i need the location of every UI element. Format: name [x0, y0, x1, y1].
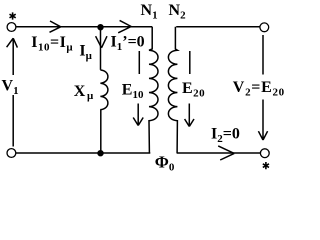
transformer primary winding N1 coil	[149, 27, 158, 153]
arrow E10 (down, between X-mu and N1)	[133, 51, 143, 126]
svg-text:I2=0: I2=0	[211, 125, 240, 145]
inductor X-mu coil bumps	[100, 70, 108, 110]
svg-text:V1: V1	[2, 78, 19, 98]
wire X-mu branch lower segment	[100, 109, 102, 153]
arrow E20 (down, right of N2)	[185, 51, 194, 127]
wire top-right horizontal (secondary output)	[176, 26, 259, 28]
polarity dot asterisk top-left	[10, 12, 16, 19]
arrow V1 (up, left side)	[7, 38, 18, 146]
terminal bottom-left	[7, 149, 16, 158]
svg-text:N2: N2	[169, 2, 187, 22]
svg-text:I1’=0: I1’=0	[111, 33, 145, 53]
svg-text:Φ0: Φ0	[155, 152, 175, 173]
wire bottom-left horizontal	[16, 152, 150, 154]
svg-text:V2=E20: V2=E20	[233, 79, 285, 99]
junction node top (X-mu tap)	[97, 24, 103, 30]
svg-text:E20: E20	[182, 80, 205, 100]
wire X-mu branch upper segment	[100, 28, 102, 70]
arrow I10 (right, on top-left wire)	[50, 21, 61, 32]
svg-text:Iμ: Iμ	[79, 42, 92, 62]
terminal top-right	[260, 23, 269, 32]
arrow V2 (down, right side)	[258, 35, 267, 140]
svg-text:I10=Iμ: I10=Iμ	[31, 34, 73, 54]
polarity dot asterisk bottom-right	[263, 162, 269, 169]
wire bottom-right horizontal	[177, 152, 261, 154]
arrow I1' (right, before primary coil)	[118, 20, 131, 32]
arrow I-mu (down, on X-mu branch)	[96, 36, 107, 48]
junction node bottom	[97, 150, 103, 156]
terminal top-left	[7, 23, 16, 32]
wire top-left horizontal (primary input)	[16, 26, 152, 28]
svg-text:N1: N1	[141, 2, 158, 22]
svg-text:Xμ: Xμ	[74, 83, 95, 102]
svg-text:E10: E10	[122, 82, 144, 102]
transformer secondary winding N2 coil	[168, 27, 177, 153]
terminal bottom-right	[260, 149, 269, 158]
arrow I2 (right, on bottom-right wire)	[218, 146, 234, 160]
